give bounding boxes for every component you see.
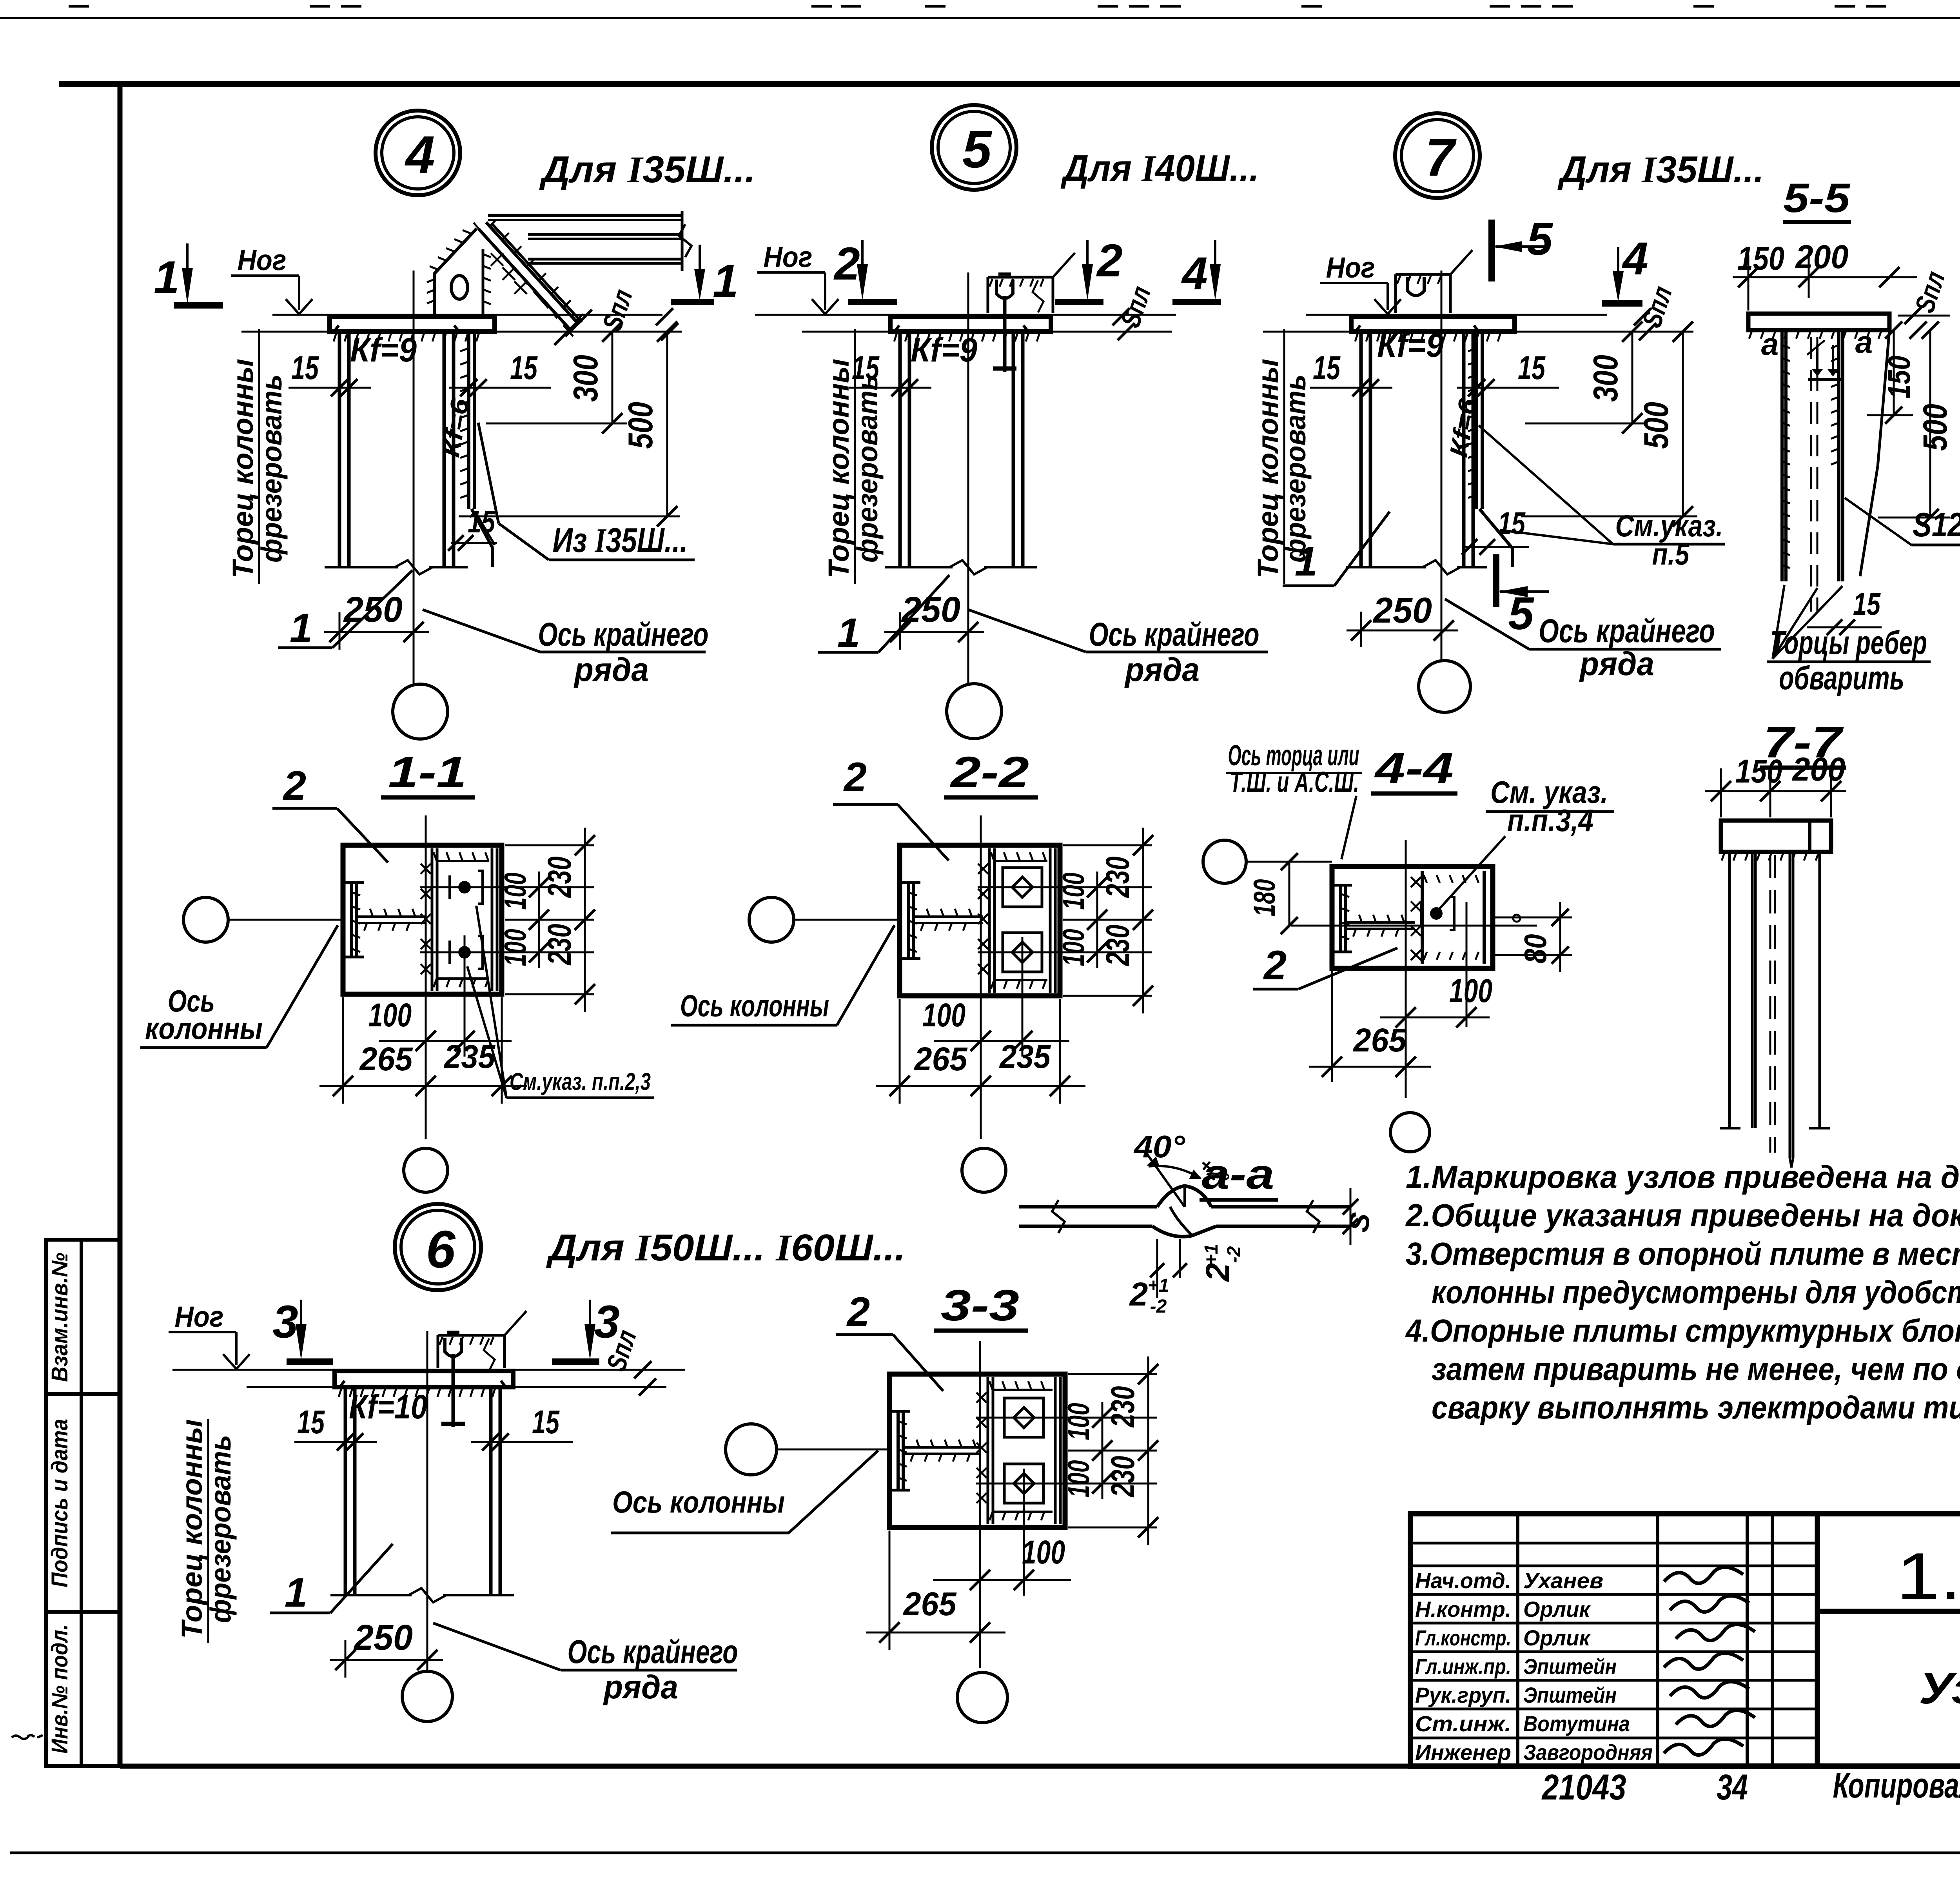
svg-text:100: 100	[1056, 929, 1091, 966]
svg-text:230: 230	[541, 857, 578, 898]
svg-text:Н.контр.: Н.контр.	[1415, 1597, 1511, 1622]
node 4 dim 300	[486, 423, 627, 425]
node 7 rib plate	[1475, 332, 1478, 509]
svg-text:230: 230	[1104, 1386, 1141, 1428]
node 7 dim 15 rib	[1457, 387, 1559, 389]
svg-text:21043: 21043	[1541, 1767, 1626, 1807]
weld detail angle 40deg	[1147, 1153, 1185, 1207]
node 4 beam end post	[681, 211, 684, 271]
svg-text:100: 100	[922, 997, 965, 1033]
svg-text:Для I40Ш...: Для I40Ш...	[1060, 147, 1259, 189]
node 4 rib plate	[467, 332, 470, 509]
svg-text:Ось колонны: Ось колонны	[612, 1485, 785, 1519]
svg-text:235: 235	[443, 1038, 495, 1075]
svg-text:80: 80	[1518, 934, 1553, 964]
svg-text:100: 100	[1022, 1534, 1065, 1571]
svg-text:235: 235	[999, 1038, 1051, 1075]
section 4-4 rib with bolt	[1421, 871, 1424, 964]
svg-text:Узлы 4-8: Узлы 4-8	[1919, 1664, 1960, 1713]
node 4 column and plate	[330, 317, 495, 332]
section 4-4 bottom grid bubble	[1390, 1113, 1430, 1152]
section 1-1 rib strip with bolts	[431, 848, 434, 991]
section 2-2 plate	[900, 845, 1060, 996]
svg-text:Торец колонны: Торец колонны	[822, 359, 855, 578]
node 7 section cut 5 top	[1488, 220, 1495, 281]
svg-text:250: 250	[1372, 590, 1432, 630]
svg-text:1-1: 1-1	[388, 748, 466, 797]
node 7 dim 15 rib bottom	[1463, 546, 1529, 548]
section 5-5 dim 500 right	[1929, 330, 1931, 518]
svg-text:265: 265	[359, 1040, 413, 1077]
svg-text:Рук.груп.: Рук.груп.	[1415, 1683, 1511, 1707]
node 7 seat detail on plate	[1396, 273, 1450, 276]
svg-text:300: 300	[1586, 355, 1625, 402]
node 4 gusset front flange	[482, 249, 485, 314]
node 4 diagonal weld crosses	[491, 253, 503, 266]
svg-text:200: 200	[1792, 751, 1846, 788]
node 5 level line Nog	[755, 314, 1176, 316]
node 7 column and plate	[1351, 317, 1515, 332]
svg-text:Ось крайнего: Ось крайнего	[1089, 616, 1259, 653]
svg-text:Завгородняя: Завгородняя	[1523, 1740, 1653, 1765]
node 7 grid bubble	[1419, 661, 1470, 712]
section 4-4 vertical axis	[1405, 840, 1407, 1098]
svg-text:Из I35Ш...: Из I35Ш...	[553, 521, 688, 560]
node 5 dim 15 left	[849, 387, 931, 389]
svg-text:5-5: 5-5	[1783, 175, 1851, 221]
svg-text:250: 250	[353, 1618, 413, 1658]
svg-text:S12: S12	[1913, 506, 1960, 544]
node 4 diagonal seat hatch	[490, 219, 497, 226]
svg-text:ряда: ряда	[1124, 651, 1200, 688]
svg-text:Орлик: Орлик	[1523, 1625, 1591, 1650]
sheet bottom line	[10, 1852, 1960, 1854]
node 4 column axis	[413, 271, 415, 684]
section 7-7 plate	[1721, 821, 1831, 852]
node 5 plate right ext line	[1051, 331, 1172, 333]
svg-text:+1: +1	[1201, 1244, 1222, 1266]
node 4 diagonal truss member	[479, 229, 569, 329]
weld detail plates	[1019, 1205, 1157, 1209]
section 3-3 dims bottom	[889, 1531, 891, 1650]
svg-text:230: 230	[1099, 857, 1136, 898]
weld detail seam	[1157, 1186, 1211, 1207]
svg-text:150: 150	[1737, 240, 1784, 277]
node 6 anchor bolt	[452, 1354, 455, 1427]
section 2-2 column T section	[907, 882, 910, 959]
svg-text:4-4: 4-4	[1374, 744, 1454, 793]
svg-text:1: 1	[154, 252, 180, 303]
section 3-3 dims right	[1068, 1373, 1157, 1375]
svg-text:2: 2	[1199, 1263, 1236, 1282]
svg-text:500: 500	[621, 402, 660, 449]
svg-text:Подпись и дата: Подпись и дата	[47, 1419, 73, 1587]
node 6 dim 15 right	[471, 1441, 573, 1443]
svg-text:а: а	[1761, 327, 1779, 361]
section 1-1 bottom grid bubble	[404, 1148, 448, 1192]
node 7 plate right ext line	[1515, 331, 1693, 333]
svg-text:-2: -2	[1224, 1246, 1245, 1263]
svg-text:1: 1	[285, 1570, 307, 1616]
svg-text:Инженер: Инженер	[1415, 1740, 1511, 1765]
svg-text:2: 2	[1263, 942, 1287, 988]
svg-text:Ног: Ног	[1326, 251, 1375, 284]
svg-text:Копировал: Копировал	[1833, 1766, 1960, 1805]
section 1-1 left grid bubble	[183, 897, 228, 942]
svg-text:Инв.№ подл.: Инв.№ подл.	[47, 1624, 73, 1754]
section 1-1 dims bottom	[342, 997, 344, 1104]
svg-text:15: 15	[1498, 506, 1526, 541]
node 4 dim 15 rib bottom	[451, 542, 497, 544]
sheet top thin line	[0, 17, 1960, 19]
svg-text:Для I35Ш...: Для I35Ш...	[539, 149, 755, 191]
node 4 level line Nog	[272, 314, 662, 316]
svg-text:3.Отверстия в опорной плите в: 3.Отверстия в опорной плите в месте прим…	[1406, 1236, 1960, 1272]
node 4 bubble	[376, 111, 460, 195]
svg-text:Эпштейн: Эпштейн	[1523, 1683, 1617, 1707]
svg-text:Кf=9: Кf=9	[1377, 327, 1444, 364]
section 4-4 dim 100 bottom	[1380, 1017, 1490, 1019]
section 2-2 bottom grid bubble	[962, 1148, 1006, 1192]
section 1-1 vertical axis	[425, 815, 427, 1139]
title block signatures squiggles	[1664, 1567, 1743, 1583]
section 3-3 rib strip with bolts	[987, 1377, 989, 1524]
section 5-5 dim 15 bottom	[1807, 626, 1882, 628]
node 6 bubble	[395, 1204, 481, 1290]
section 3-3 vertical axis	[979, 1341, 981, 1668]
svg-text:+1: +1	[1148, 1275, 1169, 1296]
svg-text:4: 4	[1622, 233, 1648, 285]
frame top border	[59, 81, 1960, 87]
svg-text:15: 15	[468, 504, 495, 539]
section 4-4 bolt axis	[1466, 902, 1468, 1027]
svg-text:-2: -2	[1150, 1296, 1167, 1317]
section 1-1 dims right	[505, 844, 594, 846]
svg-text:7: 7	[1425, 128, 1457, 187]
svg-text:ряда: ряда	[1579, 645, 1654, 682]
section 2-2 dims bottom	[899, 999, 901, 1104]
svg-text:ряда: ряда	[603, 1669, 678, 1705]
svg-text:500: 500	[1916, 404, 1954, 451]
svg-text:15: 15	[291, 349, 319, 386]
section 4-4 dim 180	[1289, 862, 1290, 926]
svg-text:2: 2	[283, 763, 306, 809]
svg-text:Ст.инж.: Ст.инж.	[1415, 1711, 1511, 1736]
svg-text:265: 265	[914, 1040, 968, 1077]
node 7 section cut 5 bottom	[1493, 554, 1499, 607]
svg-text:100: 100	[1449, 972, 1492, 1009]
section 3-3 column T section	[897, 1411, 900, 1490]
node 4 dim 15 left	[289, 387, 371, 389]
svg-text:Уханев: Уханев	[1523, 1568, 1603, 1593]
svg-text:15: 15	[1313, 349, 1341, 386]
svg-text:230: 230	[1099, 925, 1136, 966]
stamp column Inv.N podl box	[46, 1612, 120, 1766]
svg-text:Торец колонны: Торец колонны	[227, 359, 259, 578]
svg-text:Ног: Ног	[175, 1300, 224, 1333]
node 5 anchor bolt	[1003, 296, 1007, 372]
node 4 gusset plate	[435, 229, 477, 315]
svg-text:Гл.инж.пр.: Гл.инж.пр.	[1415, 1654, 1511, 1679]
svg-text:4.Опорные плиты структурных бл: 4.Опорные плиты структурных блоков внача…	[1405, 1313, 1960, 1349]
node 5 bubble	[932, 105, 1016, 190]
svg-text:1.424.3-7.3 14КМ: 1.424.3-7.3 14КМ	[1896, 1539, 1960, 1613]
node 6 column and plate	[335, 1371, 513, 1387]
svg-text:3: 3	[272, 1296, 298, 1348]
svg-text:15: 15	[532, 1404, 560, 1440]
svg-text:Для I35Ш...: Для I35Ш...	[1557, 149, 1764, 191]
svg-text:Эпштейн: Эпштейн	[1523, 1654, 1617, 1679]
section 5-5 dim 150 right	[1893, 330, 1895, 415]
svg-text:265: 265	[1353, 1022, 1407, 1059]
node 6 level line Nog	[172, 1369, 685, 1371]
node 4 dim 15 rib	[449, 387, 551, 389]
section 3-3 left grid bubble	[726, 1424, 777, 1475]
svg-text:затем приварить не менее, чем: затем приварить не менее, чем по двум ст…	[1432, 1351, 1960, 1387]
node 6 dim 15 left	[294, 1441, 377, 1443]
node 7 dim 15 left	[1310, 387, 1392, 389]
svg-text:Кf=9: Кf=9	[350, 331, 417, 369]
svg-text:Торцы ребер: Торцы ребер	[1770, 624, 1927, 661]
node 4 plate right ext line	[495, 331, 682, 333]
section 1-1 plate	[343, 845, 502, 994]
section 4-4 plate	[1332, 866, 1493, 968]
svg-text:5: 5	[962, 120, 992, 179]
svg-text:Т.Ш. и А.С.Ш.: Т.Ш. и А.С.Ш.	[1230, 766, 1359, 798]
svg-text:34: 34	[1717, 1767, 1748, 1807]
stamp column Podpis i data box	[46, 1394, 120, 1612]
svg-text:2: 2	[1096, 235, 1123, 287]
svg-text:Кf=10: Кf=10	[349, 1388, 427, 1426]
svg-text:150: 150	[1735, 753, 1782, 790]
svg-text:5: 5	[1508, 588, 1535, 639]
pencil marks near stamp bottom	[12, 1736, 28, 1739]
node 7 column axis	[1441, 271, 1443, 661]
node 6 grid bubble	[402, 1671, 452, 1721]
svg-text:Гл.констр.: Гл.констр.	[1415, 1625, 1511, 1650]
section 3-3 bottom grid bubble	[957, 1672, 1007, 1723]
svg-text:15: 15	[1518, 349, 1546, 386]
svg-text:Вотутина: Вотутина	[1523, 1711, 1630, 1736]
node 7 bubble	[1395, 113, 1480, 198]
node 6 plate right ext line	[513, 1386, 666, 1388]
node 5 column axis	[967, 272, 969, 684]
section 2-2 dims right	[1063, 844, 1152, 846]
section 4-4 left grid bubble	[1203, 840, 1246, 883]
svg-text:2-2: 2-2	[950, 748, 1029, 797]
section 5-5 plate	[1748, 314, 1889, 330]
node 7 dim 500	[1521, 516, 1697, 518]
svg-text:сварку выполнять электродами т: сварку выполнять электродами типа Э42Я п…	[1432, 1390, 1960, 1425]
svg-text:15: 15	[1853, 587, 1881, 621]
svg-text:4: 4	[404, 125, 435, 184]
svg-text:1: 1	[290, 605, 312, 651]
svg-text:100: 100	[1061, 1460, 1096, 1498]
node 5 bearing seat	[988, 276, 1053, 279]
svg-text:15: 15	[510, 349, 538, 386]
svg-text:1: 1	[837, 610, 860, 656]
section 1-1 column T section	[350, 882, 353, 957]
svg-text:Для I50Ш... I60Ш...: Для I50Ш... I60Ш...	[546, 1227, 906, 1269]
svg-text:обварить: обварить	[1779, 659, 1904, 696]
svg-text:6: 6	[426, 1220, 456, 1279]
svg-text:100: 100	[1056, 873, 1091, 910]
section 2-2 vertical axis	[980, 815, 982, 1139]
svg-text:Ось крайнего: Ось крайнего	[1539, 612, 1715, 649]
node 4 top chord lines	[488, 214, 682, 217]
svg-text:колонны предусмотрены для удоб: колонны предусмотрены для удобства монта…	[1432, 1275, 1960, 1310]
svg-text:100: 100	[498, 873, 532, 910]
node 7 level line Nog	[1306, 314, 1607, 316]
section 5-5 hidden bolt lines	[1810, 337, 1812, 612]
svg-text:4: 4	[1181, 248, 1208, 300]
svg-text:265: 265	[903, 1585, 957, 1622]
svg-text:2: 2	[1129, 1276, 1148, 1313]
title block signature table rows	[1410, 1542, 1817, 1545]
section 4-4 dim 80 right	[1493, 917, 1572, 919]
svg-text:Ось колонны: Ось колонны	[680, 988, 829, 1023]
svg-text:40°: 40°	[1133, 1129, 1185, 1164]
section 3-3 plate	[889, 1374, 1065, 1527]
node 6 bearing seat	[438, 1334, 505, 1337]
svg-text:5: 5	[1527, 213, 1553, 265]
sheet top registration dashes	[69, 5, 89, 8]
weld detail root gap dims	[1156, 1239, 1158, 1298]
node 5 grid bubble	[947, 684, 1002, 739]
svg-text:См.указ. п.п.2,3: См.указ. п.п.2,3	[510, 1068, 651, 1095]
svg-text:2: 2	[846, 1289, 870, 1335]
svg-text:Взам.инв.№: Взам.инв.№	[47, 1253, 73, 1382]
svg-text:Ось крайнего: Ось крайнего	[568, 1633, 738, 1670]
svg-text:100: 100	[1061, 1403, 1096, 1440]
title block outer box	[1410, 1514, 1960, 1766]
svg-text:п.5: п.5	[1652, 537, 1690, 571]
svg-text:Ног: Ног	[764, 241, 813, 273]
node 4 grid bubble	[393, 684, 448, 739]
svg-text:Ног: Ног	[238, 244, 287, 276]
section 2-2 left grid bubble	[749, 897, 794, 942]
svg-text:2: 2	[843, 754, 867, 800]
svg-text:300: 300	[566, 355, 605, 402]
svg-text:п.п.3,4: п.п.3,4	[1507, 803, 1593, 838]
frame left border	[118, 84, 123, 1766]
svg-text:1.Маркировка узлов приведена н: 1.Маркировка узлов приведена на докум.11…	[1406, 1159, 1960, 1195]
stamp column Vzam.inv box	[46, 1240, 120, 1394]
svg-text:230: 230	[541, 924, 578, 966]
section 2-2 rib strip with bolts	[988, 848, 991, 993]
svg-text:колонны: колонны	[145, 1011, 263, 1046]
section 4-4 horizontal axis	[1291, 925, 1537, 927]
title block signature table columns	[1516, 1514, 1519, 1766]
svg-text:15: 15	[297, 1404, 325, 1440]
svg-text:Орлик: Орлик	[1523, 1597, 1591, 1622]
svg-text:500: 500	[1637, 402, 1675, 449]
section 5-5 right edge bevel	[1878, 330, 1889, 467]
section 4-4 column T section	[1339, 885, 1342, 952]
node 6 column axis	[426, 1331, 428, 1670]
svg-text:1: 1	[1295, 539, 1318, 585]
svg-text:3-3: 3-3	[941, 1281, 1019, 1330]
svg-text:200: 200	[1795, 238, 1849, 275]
weld detail dim S right	[1343, 1199, 1358, 1215]
node 4 dim 500	[459, 516, 680, 518]
svg-text:а: а	[1855, 325, 1873, 360]
svg-text:ряда: ряда	[573, 651, 649, 688]
svg-text:150: 150	[1882, 356, 1916, 399]
node 7 dim 300	[1525, 423, 1646, 425]
svg-text:2.Общие указания приведены на: 2.Общие указания приведены на докум. 13К…	[1405, 1198, 1960, 1233]
svg-text:2: 2	[833, 238, 860, 290]
svg-text:Ось крайнего: Ось крайнего	[538, 616, 709, 653]
section 4-4 dim 265	[1331, 968, 1333, 1082]
svg-text:100: 100	[368, 997, 412, 1033]
section 5-5 column webs	[1780, 330, 1784, 581]
svg-text:230: 230	[1104, 1456, 1141, 1498]
frame bottom border	[120, 1764, 1410, 1769]
svg-text:1: 1	[713, 255, 739, 307]
svg-text:Нач.отд.: Нач.отд.	[1415, 1568, 1511, 1593]
svg-text:Торец колонны: Торец колонны	[176, 1419, 208, 1639]
svg-text:180: 180	[1247, 879, 1281, 917]
svg-text:100: 100	[498, 929, 532, 966]
node 5 column and plate	[890, 317, 1051, 332]
section 7-7 column web elevation	[1728, 852, 1731, 1128]
